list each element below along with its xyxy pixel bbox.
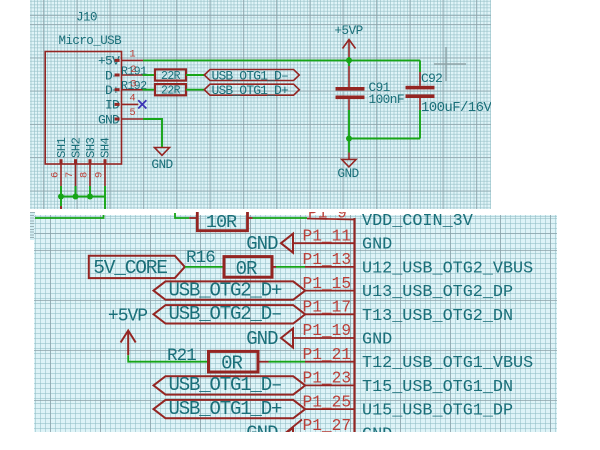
svg-text:SH1: SH1 — [55, 137, 69, 158]
ground symbol below pin5 — [155, 148, 170, 156]
svg-text:USB_OTG1_D–: USB_OTG1_D– — [169, 374, 282, 396]
net label USB_OTG2_D+ — [154, 281, 306, 299]
wire — [248, 217, 253, 219]
cursor crosshair — [434, 47, 466, 81]
svg-text:Micro_USB: Micro_USB — [59, 34, 123, 48]
svg-text:T15_USB_OTG1_DN: T15_USB_OTG1_DN — [362, 378, 513, 397]
wire pin3 to R192 — [143, 89, 156, 91]
svg-text:4: 4 — [129, 93, 135, 105]
svg-text:9: 9 — [94, 172, 106, 178]
wire — [175, 213, 189, 218]
svg-text:5V_CORE: 5V_CORE — [93, 257, 167, 279]
pin 1 stub — [115, 59, 120, 62]
svg-text:GND: GND — [246, 233, 278, 255]
svg-text:USB_OTG1_D+: USB_OTG1_D+ — [212, 83, 290, 98]
resistor R192 body 22R — [155, 84, 186, 95]
wire — [293, 337, 355, 339]
net label USB_OTG1_D- — [204, 70, 299, 81]
svg-text:GND: GND — [337, 166, 359, 181]
svg-text:22R: 22R — [161, 85, 181, 98]
junction dot below C91 — [346, 136, 352, 142]
svg-text:P1_27: P1_27 — [303, 417, 352, 435]
svg-text:100uF/16V: 100uF/16V — [421, 100, 492, 116]
svg-text:R16: R16 — [186, 248, 215, 268]
wire — [305, 384, 354, 386]
pin 5 stub — [115, 118, 120, 121]
wire — [253, 217, 308, 219]
wire — [269, 361, 306, 363]
wire — [286, 420, 302, 433]
wire — [276, 266, 305, 268]
pin 9 stub — [104, 159, 107, 164]
svg-text:P1_15: P1_15 — [303, 275, 352, 293]
svg-text:GND: GND — [362, 331, 392, 350]
svg-text:6: 6 — [50, 172, 62, 178]
svg-text:SH2: SH2 — [69, 137, 83, 158]
svg-text:GND: GND — [246, 328, 278, 350]
svg-text:C92: C92 — [421, 71, 442, 86]
pin 4 stub — [115, 103, 120, 106]
svg-text:10R: 10R — [206, 212, 237, 233]
net label USB_OTG1_D- — [154, 376, 306, 394]
net label USB_OTG2_D- — [154, 305, 306, 323]
svg-text:U13_USB_OTG2_DP: U13_USB_OTG2_DP — [362, 283, 513, 302]
svg-text:P1_11: P1_11 — [303, 227, 352, 245]
svg-text:U15_USB_OTG1_DP: U15_USB_OTG1_DP — [362, 402, 513, 421]
svg-text:J10: J10 — [76, 11, 97, 25]
svg-text:+5VP: +5VP — [108, 306, 147, 326]
svg-text:P1_9: P1_9 — [308, 205, 347, 223]
svg-text:GND: GND — [151, 157, 173, 172]
wire — [185, 266, 224, 268]
capacitor C91 — [348, 60, 350, 66]
wire bus to bottom left — [60, 197, 62, 207]
svg-text:P1_25: P1_25 — [303, 393, 352, 411]
resistor R191 body 22R — [155, 69, 186, 80]
wire — [305, 313, 354, 315]
svg-text:P1_19: P1_19 — [303, 322, 352, 340]
svg-text:3: 3 — [130, 79, 136, 91]
wire pin1 +5V rail — [143, 59, 420, 61]
svg-text:T13_USB_OTG2_DN: T13_USB_OTG2_DN — [362, 307, 513, 326]
svg-text:P1_21: P1_21 — [303, 346, 352, 364]
svg-text:USB_OTG2_D+: USB_OTG2_D+ — [169, 279, 283, 301]
net label USB_OTG1_D+ — [154, 400, 306, 418]
wire pin2 to R191 — [143, 74, 156, 76]
wire — [272, 266, 276, 268]
svg-text:GND: GND — [362, 425, 392, 444]
svg-text:0R: 0R — [221, 353, 242, 375]
svg-text:0R: 0R — [236, 258, 257, 280]
svg-text:P1_23: P1_23 — [303, 370, 352, 388]
pin 3 stub — [115, 88, 120, 91]
resistor 10R — [197, 210, 247, 231]
pin 8 stub — [89, 159, 92, 164]
svg-text:+5VP: +5VP — [334, 23, 362, 38]
svg-text:T12_USB_OTG1_VBUS: T12_USB_OTG1_VBUS — [362, 354, 533, 373]
wire pin P1_13 — [305, 266, 355, 268]
wire pin P1_9 — [307, 219, 355, 220]
svg-text:8: 8 — [79, 172, 91, 178]
svg-text:USB_OTG1_D+: USB_OTG1_D+ — [169, 398, 283, 420]
pin 2 stub — [115, 74, 120, 77]
svg-text:5: 5 — [129, 107, 135, 119]
svg-text:SH4: SH4 — [98, 137, 112, 158]
wire — [293, 242, 355, 244]
wire pin P1_21 — [305, 361, 355, 363]
wire — [128, 355, 208, 362]
svg-text:USB_OTG2_D–: USB_OTG2_D– — [169, 303, 282, 325]
capacitor C92 — [419, 60, 421, 72]
svg-text:P1_13: P1_13 — [303, 251, 352, 269]
svg-text:USB_OTG1_D–: USB_OTG1_D– — [212, 68, 289, 83]
pin 6 stub — [60, 159, 63, 164]
svg-text:GND: GND — [362, 236, 392, 255]
svg-text:VDD_COIN_3V: VDD_COIN_3V — [362, 212, 473, 231]
wire R192 to label — [186, 89, 204, 91]
wire lower rail to C92 — [349, 138, 420, 140]
resistor R16 body 0R — [224, 257, 272, 278]
wire — [258, 361, 269, 363]
junction dots — [58, 194, 64, 200]
wire — [305, 290, 354, 292]
svg-text:SH3: SH3 — [84, 137, 98, 158]
svg-text:P1_17: P1_17 — [303, 299, 352, 317]
wire bus to bottom right — [104, 197, 106, 210]
no-connect X on pin ID — [138, 100, 146, 108]
svg-text:R21: R21 — [167, 346, 196, 366]
svg-text:GND: GND — [246, 423, 278, 445]
wire — [35, 215, 104, 218]
wire — [305, 408, 354, 410]
shield wires down to bus — [60, 186, 62, 197]
svg-text:U12_USB_OTG2_VBUS: U12_USB_OTG2_VBUS — [362, 259, 533, 278]
connector J10 body — [45, 52, 121, 165]
svg-text:2: 2 — [130, 64, 136, 76]
ground symbol below C91 — [348, 139, 350, 153]
net label 5V_CORE — [89, 256, 185, 278]
wire R191 to label — [186, 74, 204, 76]
wire pin5 to GND — [143, 119, 162, 148]
net label USB_OTG1_D+ — [204, 84, 299, 95]
junction dot at +5VP — [346, 57, 352, 63]
svg-text:1: 1 — [129, 49, 135, 61]
svg-text:7: 7 — [64, 172, 76, 178]
pin 7 stub — [74, 159, 77, 164]
svg-text:22R: 22R — [161, 70, 181, 83]
shield bus wire — [61, 196, 105, 198]
resistor R21 body 0R — [209, 351, 259, 372]
svg-text:100nF: 100nF — [369, 92, 404, 107]
connector P1 body edge — [353, 218, 355, 432]
wire — [189, 217, 197, 219]
